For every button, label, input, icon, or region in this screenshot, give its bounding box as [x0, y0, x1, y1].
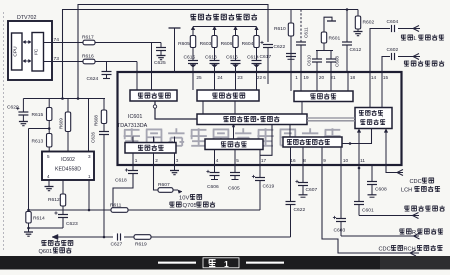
svg-text:IC601: IC601: [128, 114, 142, 120]
wire to noise reduction circuit: [52, 236, 291, 238]
svg-text:15: 15: [383, 75, 389, 80]
svg-text:R619: R619: [135, 242, 147, 248]
capacitor C601 pin11 series: [358, 164, 360, 202]
capacitor C627 series: [113, 233, 124, 241]
data bus decoder to input select: [307, 117, 355, 119]
svg-text:20: 20: [319, 75, 325, 80]
svg-text:2: 2: [155, 158, 158, 163]
svg-text:R606: R606: [221, 41, 233, 47]
wire junction column x=28.5: [28, 129, 30, 212]
op-amp IC602 KED4558D box: [42, 152, 94, 181]
svg-text:R617: R617: [82, 35, 94, 41]
capacitor C626: [103, 124, 105, 132]
svg-text:1: 1: [295, 75, 298, 80]
ground below R614: [24, 231, 33, 233]
svg-text:25: 25: [196, 75, 202, 80]
wire pin73 down into IC: [136, 62, 138, 74]
block 总线译码器·锁存器: [197, 114, 307, 125]
capacitor C609: [330, 51, 332, 60]
capacitor C607 pin8: [302, 164, 304, 183]
resistor R602: [357, 10, 359, 17]
annotation 收音信号输入 (top): [404, 61, 444, 67]
capacitor C600 hanging: [371, 164, 373, 182]
svg-text:C620: C620: [7, 105, 19, 111]
op-amp/audio-processor IC601 TDA7313DA box: [118, 72, 402, 165]
svg-text:C603: C603: [334, 228, 346, 234]
svg-text:R603: R603: [200, 41, 212, 47]
svg-text:R601: R601: [329, 36, 341, 42]
svg-text:R615: R615: [32, 112, 44, 118]
svg-text:C608: C608: [375, 187, 387, 193]
svg-text:CDC: CDC: [410, 179, 422, 185]
svg-text:C616: C616: [226, 55, 238, 61]
wire W2 supply rail: [63, 10, 359, 99]
wire pin6 stub: [267, 73, 269, 84]
block 总线控制器: [130, 90, 177, 101]
svg-text:C601: C601: [362, 208, 374, 214]
svg-text:C622: C622: [274, 44, 286, 50]
annotation 收音信号输入 (bottom): [404, 206, 444, 212]
resistor R616: [83, 59, 95, 64]
capacitor C623: [62, 206, 64, 215]
svg-text:3: 3: [176, 158, 179, 163]
capacitor C619 pin17 series: [259, 164, 261, 178]
capacitor C604 series: [390, 25, 398, 32]
svg-text:C626: C626: [91, 132, 96, 143]
wire decoder to pin17 branch: [260, 125, 272, 156]
svg-text:19: 19: [303, 75, 309, 80]
annotation 磁带R信号输入: [399, 228, 411, 234]
wire decoder to mixer: [233, 125, 235, 140]
svg-text:R614: R614: [33, 216, 45, 222]
svg-text:LCH: LCH: [401, 188, 412, 194]
svg-text:IC602: IC602: [61, 157, 75, 163]
svg-text:R604: R604: [242, 41, 254, 47]
resistor R610: [290, 10, 292, 24]
svg-text:C612: C612: [350, 47, 362, 53]
supply node wire y=98.5: [23, 98, 105, 100]
capacitor C612: [346, 10, 348, 43]
svg-text:R608: R608: [94, 115, 99, 126]
svg-text:R616: R616: [82, 54, 94, 60]
ground pin3: [174, 164, 176, 170]
svg-text:C623: C623: [66, 221, 78, 227]
svg-text:C614: C614: [247, 55, 259, 61]
watermark 杭州将睿科技有限公司: [124, 128, 341, 146]
block 低音控制: [294, 91, 353, 102]
wire radio input pin15: [382, 57, 420, 74]
output column resistor R604 capacitor C614: [255, 27, 259, 30]
svg-text:C605: C605: [228, 186, 240, 192]
svg-text:74: 74: [54, 37, 60, 43]
capacitor C606 pin4: [214, 164, 216, 173]
wires buffer to decoder: [202, 101, 204, 114]
annotation 去降噪电路 Q601管基极: [41, 240, 73, 246]
annotation 来自Q705发射极: [169, 202, 181, 208]
svg-text:14: 14: [371, 75, 377, 80]
svg-text:R609: R609: [59, 118, 64, 129]
capacitor C610: [316, 51, 318, 60]
wires treble control to pins 1 2 3: [132, 153, 134, 164]
capacitor C603 pin10 series: [340, 164, 342, 219]
wire pin74 down into IC: [151, 43, 153, 74]
svg-text:DTV702: DTV702: [17, 15, 36, 21]
svg-text:R602: R602: [363, 20, 375, 26]
capacitor C605 pin5: [234, 164, 236, 173]
wire C623 to R614 node: [29, 220, 64, 229]
microcontroller DTV702 box: [8, 21, 52, 80]
svg-text:9: 9: [323, 158, 326, 163]
svg-text:R611: R611: [110, 203, 122, 209]
bus arrows between CPU and I2C: [23, 41, 31, 43]
figure bar: [0, 256, 450, 270]
capacitor C622 pin16: [290, 164, 292, 202]
svg-text:R612: R612: [48, 197, 60, 203]
svg-text:C615: C615: [184, 55, 196, 61]
page left edge artifact: [3, 12, 5, 250]
wire LCH output: [386, 164, 403, 173]
output group bracket: [193, 26, 257, 28]
svg-text:73: 73: [54, 56, 60, 62]
svg-text:3: 3: [88, 154, 91, 159]
svg-text:TDA7313DA: TDA7313DA: [117, 123, 148, 129]
svg-text:C606: C606: [207, 184, 219, 190]
output column resistor R605 capacitor C615: [191, 27, 195, 30]
svg-text:Q705: Q705: [183, 203, 197, 209]
svg-text:C602: C602: [387, 47, 399, 53]
svg-text:RCH: RCH: [404, 247, 416, 253]
resistor R609: [67, 99, 69, 113]
wires bass control pins: [290, 73, 292, 91]
annotation 磁带L信号输入: [401, 35, 413, 41]
output column resistor R603 capacitor C613: [213, 27, 217, 30]
output column resistor R606 capacitor C616: [234, 27, 238, 30]
svg-text:1: 1: [224, 259, 229, 269]
IC602 pin4 ground: [48, 180, 50, 186]
capacitor C602 series: [390, 53, 398, 60]
wires volume block to pins 9 16 8: [321, 147, 323, 164]
svg-text:17: 17: [261, 158, 267, 163]
svg-text:11: 11: [360, 158, 365, 163]
stubs above treble control: [132, 137, 134, 143]
svg-text:C619: C619: [263, 184, 275, 190]
resistor R619: [134, 235, 151, 240]
CPU sub-block: [12, 33, 23, 70]
svg-text:L: L: [414, 36, 417, 42]
svg-text:24: 24: [217, 75, 223, 80]
wire pin74 SDA line: [44, 42, 84, 44]
svg-text:5: 5: [236, 158, 239, 163]
wire pin9 to CDC RCH input: [322, 164, 419, 253]
resistor R608: [103, 99, 105, 111]
svg-text:C618: C618: [115, 178, 127, 184]
svg-text:KED4558D: KED4558D: [55, 167, 81, 173]
block 输出缓冲器: [197, 90, 259, 101]
svg-text:5: 5: [47, 154, 50, 159]
svg-text:I²C: I²C: [34, 48, 40, 55]
svg-text:C617: C617: [260, 54, 272, 60]
block 信号输入，方式选择: [355, 108, 392, 129]
resistor R601 with top ground hook: [324, 17, 332, 32]
svg-text:8: 8: [303, 158, 306, 163]
capacitor C621 electrolytic: [260, 42, 263, 44]
svg-text:1: 1: [88, 174, 91, 179]
capacitor C611: [300, 10, 302, 43]
capacitor C617: [286, 53, 296, 55]
wire to IC602 pin3: [88, 99, 90, 152]
svg-text:C622: C622: [294, 207, 306, 213]
svg-text:6: 6: [263, 75, 266, 80]
svg-text:C613: C613: [205, 55, 217, 61]
wire decoder to volume: [289, 125, 291, 138]
resistor R615: [48, 99, 50, 108]
block 音量、响度控制: [283, 137, 342, 147]
svg-text:R: R: [412, 230, 416, 236]
svg-text:C611: C611: [304, 27, 309, 38]
annotation 四路信号输出去功放: [191, 14, 258, 20]
svg-text:R605: R605: [178, 41, 190, 47]
svg-text:10V: 10V: [179, 196, 189, 202]
svg-text:CDC: CDC: [379, 247, 391, 253]
svg-text:R607: R607: [158, 182, 170, 188]
capacitor C624: [106, 62, 108, 72]
block 混合控制: [205, 139, 263, 150]
svg-text:16: 16: [290, 158, 296, 163]
wires input select top pins 14/15: [369, 73, 371, 108]
resistor R612: [62, 180, 64, 194]
svg-text:C610: C610: [307, 55, 312, 66]
ground hook above IC left: [169, 27, 181, 29]
svg-text:23: 23: [237, 75, 243, 80]
svg-text:18: 18: [350, 75, 356, 80]
wire tape-L input pin14: [370, 29, 420, 74]
resistor R613: [47, 134, 52, 148]
svg-text:4: 4: [47, 174, 50, 179]
wire input select to volume block: [342, 129, 372, 144]
wires input select to pins 11 and LCH out: [358, 129, 360, 165]
svg-text:R610: R610: [274, 26, 286, 32]
svg-text:1: 1: [135, 158, 138, 163]
junction to R614 branch: [48, 127, 51, 130]
resistor R607 pin2 10V feed: [154, 164, 159, 190]
wire bus controller to decoder: [155, 101, 197, 119]
svg-text:C625: C625: [154, 60, 166, 66]
capacitor C625: [160, 43, 162, 48]
wire W1 to pin6: [78, 5, 268, 99]
block 高音控制: [125, 143, 176, 154]
junction supply/C612: [346, 8, 349, 11]
svg-text:C607: C607: [306, 187, 318, 193]
svg-text:C608: C608: [335, 56, 340, 67]
wire pin73 SCL line: [44, 61, 84, 63]
wires mixer to pins 4 5 17: [214, 150, 216, 165]
capacitor C618 on pin1: [132, 164, 134, 171]
resistor R611 return line: [29, 209, 112, 211]
node wire for C610/C609: [316, 50, 333, 52]
svg-text:4: 4: [216, 158, 219, 163]
I2C sub-block: [32, 33, 44, 72]
svg-text:C627: C627: [111, 242, 123, 248]
svg-text:22: 22: [257, 75, 263, 80]
svg-text:C624: C624: [87, 76, 99, 82]
svg-text:C604: C604: [387, 19, 399, 25]
wire pins74/73 to bus controller: [136, 73, 138, 90]
label 图1: [203, 258, 239, 268]
capacitor C620: [22, 99, 24, 113]
wires output pins into buffer: [192, 73, 194, 90]
resistor R617: [83, 40, 95, 45]
svg-text:CPU: CPU: [13, 46, 19, 57]
svg-text:Q601: Q601: [39, 249, 53, 255]
svg-text:R613: R613: [32, 139, 44, 145]
svg-text:10: 10: [343, 158, 349, 163]
svg-text:,: ,: [382, 113, 383, 119]
resistor R614: [26, 212, 31, 224]
IC602 pin1 wire down: [88, 180, 90, 210]
